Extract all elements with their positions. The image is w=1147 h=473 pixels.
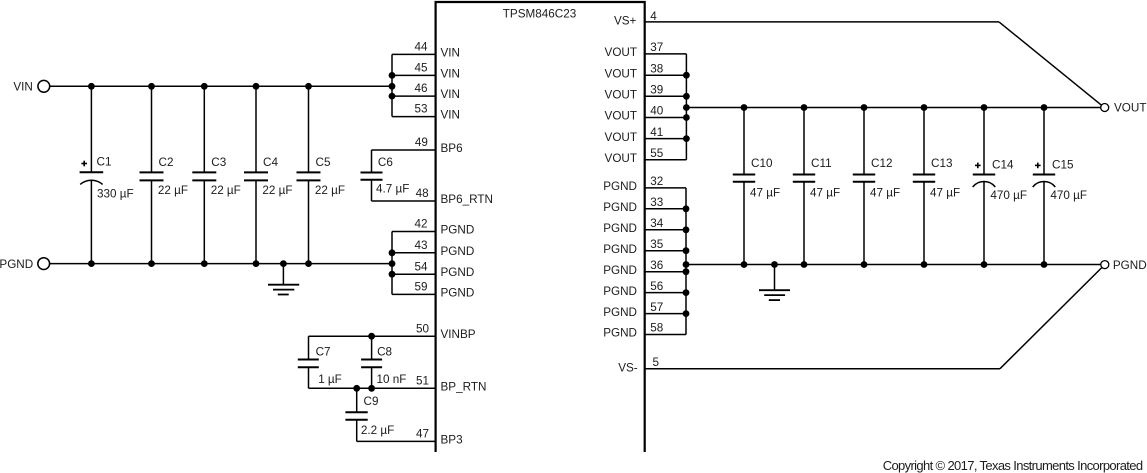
svg-text:VIN: VIN: [441, 67, 460, 80]
svg-text:50: 50: [416, 322, 430, 335]
svg-text:40: 40: [650, 105, 664, 118]
svg-text:58: 58: [650, 322, 663, 335]
svg-text:35: 35: [650, 238, 664, 251]
wire VOUT rail: [686, 107, 1100, 109]
wire VIN rail: [50, 85, 392, 87]
svg-text:C6: C6: [378, 156, 393, 169]
node VOUT/C15 junction: [1041, 104, 1048, 111]
node PGND/C4 junction: [253, 260, 260, 267]
wire pin 44 stub: [392, 53, 436, 55]
svg-text:470 µF: 470 µF: [990, 189, 1027, 202]
capacitor C2 22uF: [140, 86, 189, 263]
svg-text:PGND: PGND: [603, 222, 637, 235]
node VIN/C5 junction: [305, 83, 312, 90]
junction PGND bus: [683, 310, 690, 317]
wire pin 45 stub: [392, 74, 436, 76]
wire pin 50 VINBP net: [309, 335, 436, 337]
wire pin 58 stub: [645, 334, 686, 336]
svg-text:PGND: PGND: [603, 306, 637, 319]
capacitor C8 10nF: [361, 336, 406, 388]
svg-text:22 µF: 22 µF: [158, 184, 188, 197]
svg-text:47 µF: 47 µF: [870, 186, 900, 199]
capacitor C7 1uF: [298, 336, 342, 388]
wire pin 53 stub: [392, 116, 436, 118]
ground (right): [759, 265, 790, 301]
junction VOUT bus: [683, 104, 690, 111]
svg-text:49: 49: [415, 136, 428, 149]
svg-text:57: 57: [650, 301, 663, 314]
svg-text:VOUT: VOUT: [605, 110, 637, 123]
wire pin 47 stub BP3: [357, 440, 436, 442]
wire pin 39 stub: [645, 95, 687, 97]
svg-text:59: 59: [415, 281, 428, 294]
node PGND/C2 junction: [148, 260, 155, 267]
svg-text:36: 36: [650, 259, 663, 272]
svg-text:10 nF: 10 nF: [377, 373, 407, 386]
node VOUT/C14 junction: [981, 104, 988, 111]
node VIN/C3 junction: [201, 83, 208, 90]
svg-text:44: 44: [415, 41, 429, 54]
svg-text:2.2 µF: 2.2 µF: [361, 424, 394, 437]
svg-text:PGND: PGND: [603, 201, 637, 214]
wire VIN pin bus vertical: [391, 54, 393, 116]
svg-text:4: 4: [650, 10, 657, 23]
svg-text:C13: C13: [931, 157, 952, 170]
svg-text:VOUT: VOUT: [1114, 102, 1146, 115]
svg-text:C8: C8: [377, 346, 392, 359]
svg-text:PGND: PGND: [441, 266, 475, 279]
svg-text:1 µF: 1 µF: [318, 373, 342, 386]
junction pin45: [389, 72, 396, 79]
node VOUT/C10 junction: [741, 104, 748, 111]
node PGND/C13 junction: [921, 261, 928, 268]
wire pin 49 stub BP6: [372, 149, 436, 151]
terminal VIN: [38, 80, 50, 92]
junction PGND bus: [683, 247, 690, 254]
terminal VOUT: [1101, 104, 1109, 112]
svg-text:Copyright © 2017, Texas Instru: Copyright © 2017, Texas Instruments Inco…: [883, 458, 1143, 473]
node VIN/C2 junction: [148, 83, 155, 90]
svg-text:PGND: PGND: [441, 224, 475, 237]
svg-text:VS-: VS-: [618, 362, 638, 375]
capacitor C6 4.7uF: [361, 150, 410, 201]
svg-text:VS+: VS+: [614, 15, 637, 28]
wire PGND rail left: [50, 263, 392, 265]
capacitor C12 47uF: [853, 108, 900, 265]
svg-text:47: 47: [416, 428, 429, 441]
svg-text:VOUT: VOUT: [605, 152, 637, 165]
svg-text:C1: C1: [97, 156, 112, 169]
junction PGND bus: [683, 289, 690, 296]
svg-text:PGND: PGND: [603, 264, 637, 277]
svg-text:38: 38: [650, 62, 663, 75]
svg-text:VIN: VIN: [441, 109, 460, 122]
capacitor C1 330uF polarized: [80, 86, 134, 263]
junction VOUT bus: [683, 72, 690, 79]
svg-text:C14: C14: [992, 159, 1014, 172]
wire PGND pin bus vertical (right): [685, 188, 687, 335]
svg-text:55: 55: [650, 147, 664, 160]
svg-text:BP6_RTN: BP6_RTN: [441, 193, 493, 206]
svg-text:VIN: VIN: [13, 81, 32, 94]
terminal PGND (right): [1101, 261, 1109, 269]
svg-text:VIN: VIN: [441, 88, 460, 101]
ground (left): [268, 264, 299, 295]
junction PGND bus: [683, 226, 690, 233]
capacitor C11 47uF: [793, 108, 840, 265]
wire pin 5 VS- net: [645, 368, 1000, 370]
svg-text:48: 48: [416, 187, 429, 200]
svg-text:54: 54: [415, 260, 429, 273]
svg-text:47 µF: 47 µF: [810, 186, 840, 199]
node PGND/GND junction: [771, 261, 778, 268]
svg-text:VOUT: VOUT: [605, 67, 637, 80]
wire pin 59 stub: [392, 293, 436, 295]
capacitor C3 22uF: [192, 86, 241, 263]
svg-text:45: 45: [415, 62, 429, 75]
svg-text:PGND: PGND: [0, 258, 33, 271]
capacitor C4 22uF: [244, 86, 293, 263]
node VIN/C4 junction: [253, 83, 260, 90]
wire VS+ diagonal to VOUT terminal: [999, 22, 1102, 105]
junction VINBP/C8: [368, 333, 375, 340]
svg-text:4.7 µF: 4.7 µF: [376, 183, 409, 196]
wire pin 56 stub: [645, 292, 686, 294]
svg-text:PGND: PGND: [441, 286, 475, 299]
svg-text:VOUT: VOUT: [605, 131, 637, 144]
svg-text:C11: C11: [811, 157, 832, 170]
svg-text:39: 39: [650, 84, 663, 97]
svg-text:34: 34: [650, 217, 664, 230]
node PGND/C5 junction: [305, 260, 312, 267]
wire pin 46 stub: [392, 95, 436, 97]
svg-text:22 µF: 22 µF: [262, 184, 292, 197]
junction BP_RTN/C9: [353, 385, 360, 392]
svg-text:C7: C7: [316, 346, 331, 359]
svg-text:32: 32: [650, 175, 663, 188]
junction pin54: [389, 271, 396, 278]
node PGND/C11 junction: [801, 261, 808, 268]
junction PGND bus: [683, 205, 690, 212]
svg-text:C2: C2: [159, 156, 174, 169]
wire pin 38 stub: [645, 74, 687, 76]
svg-text:5: 5: [653, 356, 660, 369]
node VIN/C1 junction: [88, 83, 95, 90]
svg-text:C4: C4: [263, 156, 278, 169]
node PGND/C10 junction: [741, 261, 748, 268]
svg-text:22 µF: 22 µF: [315, 184, 345, 197]
capacitor C13 47uF: [913, 108, 960, 265]
svg-text:C9: C9: [364, 395, 379, 408]
svg-text:VIN: VIN: [441, 46, 460, 59]
svg-text:C3: C3: [211, 156, 226, 169]
junction pin46: [389, 93, 396, 100]
wire pin 37 stub: [645, 53, 687, 55]
svg-text:46: 46: [415, 82, 428, 95]
capacitor C9 2.2uF: [345, 388, 394, 441]
svg-text:51: 51: [416, 374, 429, 387]
wire PGND rail right: [686, 264, 1101, 266]
svg-text:37: 37: [650, 41, 663, 54]
junction VIN rail to bus: [389, 83, 396, 90]
wire pin 4 VS+ net: [645, 21, 999, 23]
wire VOUT pin bus vertical: [685, 54, 687, 160]
wire pin 42 stub: [392, 231, 436, 233]
wire pin 36 stub: [645, 271, 686, 273]
node VOUT/C11 junction: [801, 104, 808, 111]
svg-text:47 µF: 47 µF: [750, 186, 780, 199]
node PGND/GND junction: [280, 260, 287, 267]
junction BP_RTN/C8: [368, 385, 375, 392]
svg-text:PGND: PGND: [1113, 259, 1147, 272]
terminal PGND (left): [38, 258, 50, 270]
wire pin 57 stub: [645, 313, 686, 315]
svg-text:PGND: PGND: [603, 327, 637, 340]
svg-text:BP6: BP6: [441, 142, 463, 155]
node VOUT/C13 junction: [921, 104, 928, 111]
capacitor C15 470uF polarized: [1033, 108, 1087, 265]
svg-text:41: 41: [650, 126, 663, 139]
svg-text:VOUT: VOUT: [605, 46, 637, 59]
wire pin 54 stub: [392, 273, 436, 275]
svg-text:TPSM846C23: TPSM846C23: [503, 8, 576, 21]
svg-text:VOUT: VOUT: [605, 89, 637, 102]
wire pin 34 stub: [645, 229, 686, 231]
node PGND/C3 junction: [201, 260, 208, 267]
wire pin 41 stub: [645, 138, 687, 140]
wire pin 35 stub: [645, 250, 686, 252]
wire VS- diagonal to PGND terminal: [1000, 268, 1102, 369]
svg-text:56: 56: [650, 280, 663, 293]
wire PGND pin bus vertical (left): [391, 232, 393, 295]
junction PGND rail to bus: [389, 260, 396, 267]
svg-text:PGND: PGND: [603, 285, 637, 298]
junction PGND bus: [683, 268, 690, 275]
node PGND/C12 junction: [861, 261, 868, 268]
svg-text:C12: C12: [871, 157, 892, 170]
svg-text:PGND: PGND: [603, 180, 637, 193]
svg-text:22 µF: 22 µF: [211, 184, 241, 197]
junction pin43: [389, 249, 396, 256]
svg-text:C5: C5: [316, 156, 331, 169]
wire pin 33 stub: [645, 208, 686, 210]
junction PGND bus: [683, 261, 690, 268]
svg-text:53: 53: [415, 103, 428, 116]
node PGND/C14 junction: [981, 261, 988, 268]
svg-text:42: 42: [415, 218, 428, 231]
junction VOUT bus: [683, 135, 690, 142]
wire pin 40 stub: [645, 117, 687, 119]
capacitor C10 47uF: [733, 108, 780, 265]
svg-text:C15: C15: [1052, 159, 1074, 172]
svg-text:330 µF: 330 µF: [97, 187, 134, 200]
wire pin 32 stub: [645, 187, 686, 189]
svg-text:PGND: PGND: [603, 243, 637, 256]
junction VOUT bus: [683, 93, 690, 100]
svg-text:C10: C10: [751, 157, 773, 170]
IC U1 TPSM846C23 box: [436, 2, 645, 452]
capacitor C5 22uF: [297, 86, 346, 263]
wire pin 51 BP_RTN net: [309, 387, 436, 389]
svg-text:43: 43: [415, 239, 428, 252]
junction VOUT bus: [683, 114, 690, 121]
svg-text:47 µF: 47 µF: [930, 186, 960, 199]
svg-text:BP_RTN: BP_RTN: [441, 380, 487, 393]
svg-text:33: 33: [650, 196, 663, 209]
svg-text:PGND: PGND: [441, 245, 475, 258]
wire pin 43 stub: [392, 252, 436, 254]
svg-text:470 µF: 470 µF: [1050, 189, 1087, 202]
node VOUT/C12 junction: [861, 104, 868, 111]
wire pin 55 stub: [645, 159, 687, 161]
svg-text:VINBP: VINBP: [441, 328, 476, 341]
capacitor C14 470uF polarized: [973, 108, 1027, 265]
svg-text:BP3: BP3: [441, 433, 463, 446]
node PGND/C15 junction: [1041, 261, 1048, 268]
node PGND/C1 junction: [88, 260, 95, 267]
wire pin 48 stub BP6_RTN: [372, 200, 436, 202]
